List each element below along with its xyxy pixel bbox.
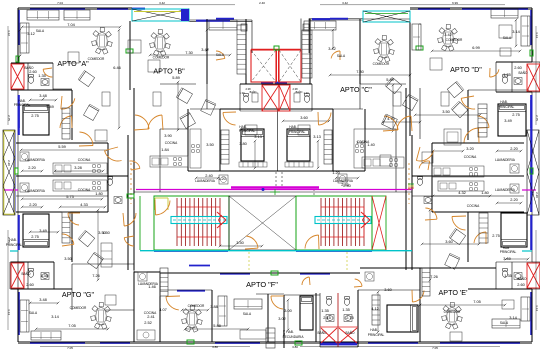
svg-text:3.50: 3.50 [64,256,72,261]
svg-text:5.89: 5.89 [172,75,180,80]
svg-text:1.35: 1.35 [321,308,329,313]
svg-text:2.20: 2.20 [510,197,518,202]
svg-text:3.12: 3.12 [7,30,11,36]
svg-text:2.75: 2.75 [7,115,11,121]
svg-text:COCINA: COCINA [464,155,477,159]
svg-text:2.20: 2.20 [28,165,36,170]
svg-text:2.20: 2.20 [510,146,518,151]
svg-text:3.50: 3.50 [206,142,214,147]
svg-text:3.90: 3.90 [356,140,364,145]
svg-text:PRINCIPAL: PRINCIPAL [239,129,256,133]
svg-text:2.75: 2.75 [512,112,520,117]
svg-text:3.48: 3.48 [39,297,47,302]
svg-text:2.60: 2.60 [514,65,522,70]
svg-text:APTO "G": APTO "G" [62,290,95,299]
svg-text:PRINCIPAL: PRINCIPAL [289,130,306,134]
svg-text:6.99: 6.99 [472,45,480,50]
svg-text:3.14: 3.14 [535,305,539,311]
svg-text:1.35: 1.35 [342,307,350,312]
svg-text:3.88: 3.88 [210,304,218,309]
svg-text:3.80: 3.80 [212,345,218,349]
svg-text:5.73: 5.73 [66,194,74,199]
svg-text:LAVANDERIA: LAVANDERIA [495,188,516,192]
svg-text:3.48: 3.48 [39,93,47,98]
svg-text:BAÑO: BAÑO [518,70,528,75]
svg-text:COMEDOR: COMEDOR [153,56,170,60]
svg-text:2.41: 2.41 [147,314,155,319]
svg-text:COMEDOR: COMEDOR [446,38,463,42]
svg-text:2.75: 2.75 [535,115,539,121]
svg-text:3.20: 3.20 [466,146,474,151]
svg-text:SALA: SALA [29,311,38,315]
svg-text:LAVANDERIA: LAVANDERIA [495,158,516,162]
svg-text:1.80: 1.80 [95,191,103,196]
svg-text:1.84: 1.84 [161,147,169,152]
svg-text:3.60: 3.60 [445,239,453,244]
svg-text:3.00: 3.00 [284,308,292,313]
svg-text:2.20: 2.20 [7,160,11,166]
svg-text:3.90: 3.90 [164,133,172,138]
svg-text:COMEDOR: COMEDOR [444,310,461,314]
svg-text:APTO 'E': APTO 'E' [439,288,469,297]
svg-text:3.49: 3.49 [503,256,511,261]
svg-text:LAVANDERIA: LAVANDERIA [195,179,216,183]
svg-text:HAB.: HAB. [500,100,508,104]
svg-text:SALA: SALA [500,321,509,325]
svg-text:SALA: SALA [503,36,512,40]
svg-text:7.05: 7.05 [473,299,481,304]
svg-text:2.75: 2.75 [7,237,11,243]
svg-text:SALA: SALA [36,29,45,33]
svg-text:4.12: 4.12 [371,306,379,311]
svg-text:3.14: 3.14 [535,32,539,38]
svg-text:SALA: SALA [243,312,252,316]
svg-text:1.35: 1.35 [40,273,48,278]
svg-text:COCINA: COCINA [165,141,178,145]
svg-text:1.35: 1.35 [504,273,512,278]
svg-text:COCINA: COCINA [78,158,91,162]
svg-text:3.12: 3.12 [27,31,35,36]
svg-text:3.50: 3.50 [236,240,244,245]
svg-text:HAB.: HAB. [286,330,294,334]
svg-text:5.59: 5.59 [58,144,66,149]
svg-text:1.20: 1.20 [218,176,226,181]
svg-text:1.20: 1.20 [332,170,340,175]
svg-text:APTO "A": APTO "A" [57,59,89,68]
svg-text:1.35: 1.35 [503,72,511,77]
svg-text:2.40: 2.40 [259,1,265,5]
svg-text:1.35: 1.35 [38,73,46,78]
svg-text:7.04: 7.04 [57,1,63,5]
svg-text:COMEDOR: COMEDOR [188,304,205,308]
svg-text:3.49: 3.49 [39,228,47,233]
svg-text:7.04: 7.04 [67,22,75,27]
svg-text:2.20: 2.20 [29,202,37,207]
svg-text:3.14: 3.14 [7,309,11,315]
svg-text:COMEDOR: COMEDOR [70,306,87,310]
svg-text:1.40: 1.40 [367,142,375,147]
svg-text:1.30: 1.30 [239,91,245,95]
svg-text:3.42: 3.42 [444,32,452,37]
svg-text:2.15: 2.15 [323,315,331,320]
svg-text:1.45: 1.45 [282,330,286,336]
svg-text:3.60: 3.60 [300,115,308,120]
svg-text:SALA: SALA [337,54,346,58]
svg-text:HAB.: HAB. [289,125,297,129]
svg-text:5.89: 5.89 [386,77,394,82]
svg-text:SALA: SALA [216,53,225,57]
svg-text:2.40: 2.40 [341,182,349,187]
svg-text:PRINCIPAL: PRINCIPAL [368,333,385,337]
svg-text:4.07: 4.07 [159,307,167,312]
svg-text:2.75: 2.75 [346,315,354,320]
svg-text:5.88: 5.88 [213,323,221,328]
svg-text:1.30: 1.30 [303,91,309,95]
svg-text:3.13: 3.13 [254,134,262,139]
svg-text:7.05: 7.05 [68,323,76,328]
svg-text:7.26: 7.26 [92,273,100,278]
svg-text:APTO "F": APTO "F" [246,280,278,289]
svg-text:3.14: 3.14 [509,315,517,320]
svg-text:3.80: 3.80 [292,345,298,349]
svg-text:3.13: 3.13 [313,134,321,139]
svg-text:COMEDOR: COMEDOR [88,57,105,61]
svg-text:2.60: 2.60 [517,282,525,287]
svg-text:3.60: 3.60 [384,287,392,292]
svg-text:2.75: 2.75 [492,233,500,238]
svg-text:4.32: 4.32 [458,190,466,195]
svg-text:7.30: 7.30 [356,69,364,74]
svg-text:BAÑO: BAÑO [517,276,527,281]
svg-text:APTO "B": APTO "B" [153,67,185,76]
svg-text:3.42: 3.42 [159,1,165,5]
svg-text:4.33: 4.33 [80,202,88,207]
svg-text:BAÑO: BAÑO [250,91,257,94]
svg-text:3.50: 3.50 [442,109,450,114]
svg-text:BAÑO: BAÑO [317,330,327,335]
svg-text:3.42: 3.42 [328,46,336,51]
svg-text:4.70: 4.70 [387,116,395,121]
svg-text:PRINCIPAL: PRINCIPAL [500,250,517,254]
svg-text:BAÑO: BAÑO [296,91,303,94]
svg-text:LAVANDERIA: LAVANDERIA [25,189,46,193]
svg-text:PRINCIPAL: PRINCIPAL [6,243,23,247]
svg-text:BAÑO: BAÑO [21,271,31,276]
svg-text:3.49: 3.49 [504,118,512,123]
svg-text:3.14: 3.14 [51,314,59,319]
svg-text:3.28: 3.28 [74,165,82,170]
svg-text:PRINCIPAL: PRINCIPAL [498,105,515,109]
svg-text:6.46: 6.46 [113,65,121,70]
svg-text:1.46: 1.46 [148,284,156,289]
svg-text:3.42: 3.42 [342,1,348,5]
svg-text:3.80: 3.80 [239,141,247,146]
svg-text:2.60: 2.60 [26,282,34,287]
svg-text:HAB.: HAB. [370,328,378,332]
svg-text:7.30: 7.30 [185,50,193,55]
svg-text:APTO "C": APTO "C" [340,85,372,94]
svg-text:2.60: 2.60 [29,69,37,74]
svg-text:BAÑO: BAÑO [345,330,355,335]
svg-text:COCINA: COCINA [467,204,480,208]
svg-text:COCINA: COCINA [78,188,91,192]
svg-text:2.52: 2.52 [144,320,152,325]
svg-text:1.50: 1.50 [102,230,110,235]
svg-text:6.99: 6.99 [452,1,458,5]
svg-text:3.02: 3.02 [278,316,286,321]
svg-text:COMEDOR: COMEDOR [373,62,390,66]
svg-text:3.42: 3.42 [201,47,209,52]
svg-text:2.75: 2.75 [31,113,39,118]
svg-text:2.75: 2.75 [31,234,39,239]
svg-text:1.80: 1.80 [481,190,489,195]
svg-text:3.49: 3.49 [46,104,54,109]
svg-text:2.20: 2.20 [535,192,539,198]
svg-text:2.40: 2.40 [205,173,213,178]
svg-text:7.26: 7.26 [430,274,438,279]
svg-text:APTO "D": APTO "D" [450,65,482,74]
svg-text:LAVANDERIA: LAVANDERIA [25,158,46,162]
svg-text:3.14: 3.14 [512,29,520,34]
svg-text:PRINCIPAL: PRINCIPAL [14,103,31,107]
